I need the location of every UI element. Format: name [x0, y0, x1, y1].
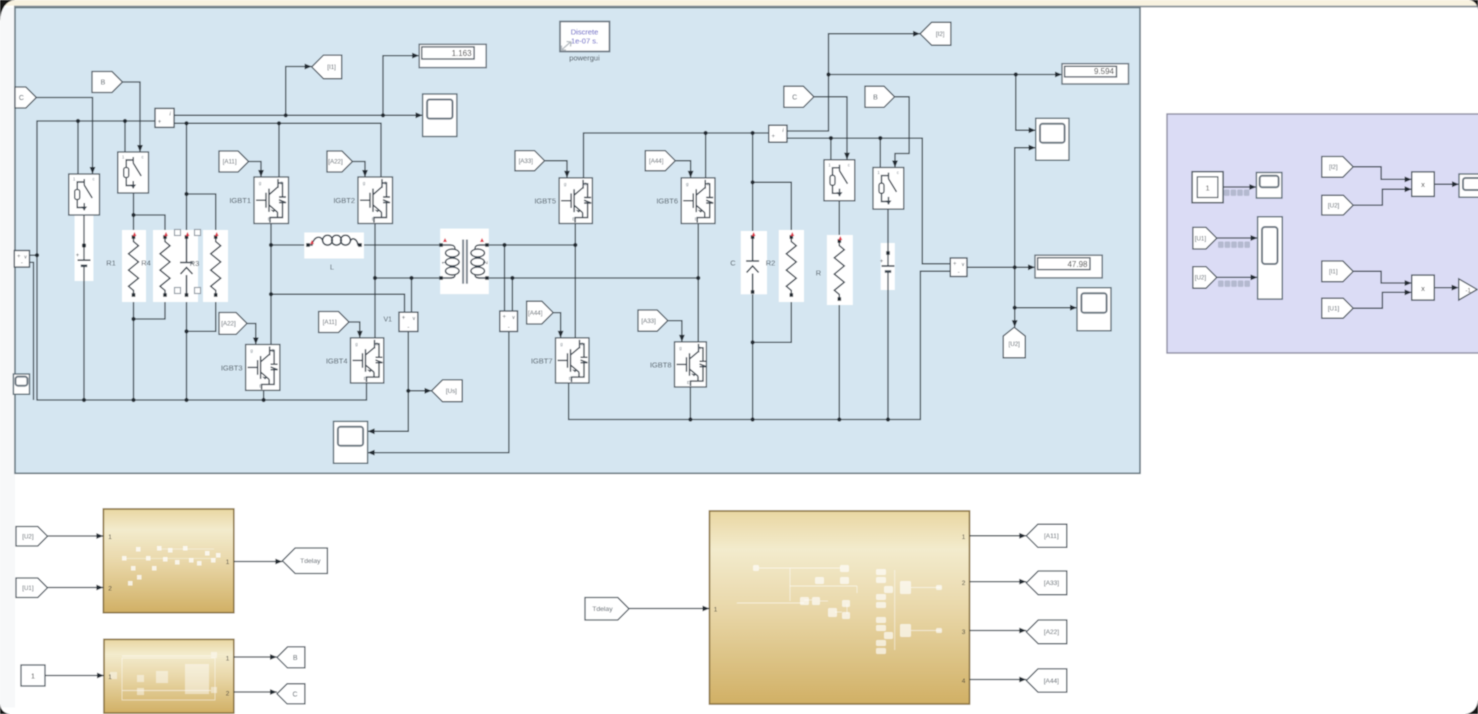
from tag A22 (IGBT2) [327, 151, 353, 172]
arrowhead into IGBT5 gate [564, 171, 570, 178]
svg-text:2: 2 [108, 586, 112, 593]
arrowhead into goto Us [425, 388, 432, 394]
svg-text:[U1]: [U1] [1328, 305, 1340, 312]
svg-text:[U2]: [U2] [1009, 341, 1021, 348]
svg-text:2: 2 [483, 260, 490, 264]
subsystem: delay calculation (top-left tan block) [103, 509, 233, 613]
wire: from A11 to IGBT1 gate [249, 162, 261, 178]
svg-text:C: C [292, 691, 297, 698]
svg-text:1: 1 [31, 672, 35, 681]
wire: from A33 to IGBT8 gate [668, 321, 682, 342]
svg-text:[A22]: [A22] [328, 159, 343, 166]
arrowhead into IGBT6 gate [688, 171, 694, 178]
wire: V2 output down to scope [368, 332, 509, 453]
goto tag B [277, 647, 305, 668]
from tag A33 (IGBT8) [638, 310, 668, 331]
from tag Tdelay (PWM input) [585, 598, 629, 621]
svg-text:c: c [897, 170, 899, 175]
arrowhead into IGBT3 gate [253, 338, 259, 345]
goto tag U2 (pointing up) [1003, 327, 1025, 358]
product block 2 [1412, 275, 1435, 300]
scope: leakage current [1256, 173, 1282, 199]
ideal switch S4 [873, 168, 904, 210]
junction node (133.5,400) [131, 398, 135, 402]
wire: from A44 to IGBT6 gate [675, 161, 690, 178]
scope: voltages (tall) [1258, 217, 1283, 299]
from tag U2 (panel) [1193, 267, 1217, 289]
junction node (690.4,419.5) [688, 417, 692, 421]
svg-text:E: E [372, 217, 375, 222]
wire: branch to display 1.163 [383, 56, 419, 116]
svg-text:1: 1 [108, 674, 112, 681]
from tag A44 (IGBT7) [527, 301, 554, 324]
rounded corner bottom-left [0, 704, 10, 714]
svg-text:E: E [695, 217, 698, 222]
svg-text:-: - [407, 325, 409, 331]
wire: R5 bottom jog [187, 295, 216, 331]
svg-text:[I2]: [I2] [936, 31, 945, 38]
wire: subsystem output to goto Tdelay [234, 561, 283, 563]
svg-text:1e-07 s.: 1e-07 s. [571, 37, 598, 46]
current measurement I2 [769, 125, 787, 142]
svg-text:2: 2 [962, 580, 966, 587]
wire: capacitor C branch line [752, 133, 754, 420]
wire: switch S1 to battery E1 to bus [83, 215, 85, 400]
wire: input voltmeter top port [30, 254, 38, 256]
arrowhead into goto U2 [1012, 320, 1018, 327]
junction node (271,294.2) [269, 292, 273, 296]
selection handles of R3 [175, 230, 181, 236]
constant 1 (leakage current sel) [1192, 172, 1223, 203]
wire: node A to V1 left port [271, 294, 405, 312]
svg-text:c: c [141, 155, 143, 160]
svg-text:+: + [158, 119, 162, 125]
arrowhead into scope4 in1 [1029, 127, 1036, 133]
arrowhead into goto A44 [1019, 677, 1026, 683]
svg-text:[A44]: [A44] [649, 158, 664, 165]
capacitor branch R3 (selected) [177, 230, 198, 302]
svg-text:+: + [17, 254, 21, 260]
rounded corner top-right [1469, 0, 1478, 10]
svg-text:B: B [873, 94, 878, 101]
svg-text:[A11]: [A11] [323, 319, 337, 326]
arrowhead into goto I2 [913, 31, 920, 37]
powergui block [560, 22, 610, 52]
display: 1.163 [419, 44, 486, 67]
wire: from B to switch S4 gate [895, 97, 910, 168]
svg-text:R3: R3 [190, 259, 200, 268]
top window strip [0, 0, 1478, 6]
resistor R1 [122, 230, 146, 302]
from tag A11 (IGBT1) [219, 151, 249, 172]
arrowhead into scope in [416, 112, 423, 118]
wire: from A22 to IGBT3 gate [247, 324, 256, 345]
wire: product 1 to power scope [1434, 183, 1459, 185]
arrowhead into product2 in1 [1405, 280, 1412, 286]
wire: current meas output rail to IGBT2 collector [174, 123, 381, 177]
junction node (839.3,419.5) [837, 417, 841, 421]
arrowhead into scope V2 in [368, 450, 375, 456]
wire: signal to display 9.594 [829, 74, 1063, 76]
svg-text:1: 1 [962, 534, 966, 541]
junction node (84,400) [82, 398, 86, 402]
svg-text:[A33]: [A33] [519, 158, 534, 165]
wire: bridge node C vertical (IGBT5-IGBT7) [574, 224, 576, 338]
wire: from U1 to voltage scope [1217, 237, 1258, 239]
svg-text:[Us]: [Us] [446, 388, 457, 395]
svg-text:[A11]: [A11] [223, 159, 237, 166]
subsystem internals (faint) [122, 658, 215, 700]
svg-text:R2: R2 [766, 259, 776, 268]
svg-text:V1: V1 [383, 317, 392, 324]
goto tag A11 (PWM out) [1026, 524, 1067, 547]
from tag I1 (panel) [1322, 261, 1353, 282]
arrowhead into subsystem in1 [96, 533, 103, 539]
svg-text:E: E [364, 376, 367, 381]
svg-text:[I2]: [I2] [1329, 164, 1338, 171]
wire: R4 bottom jog [134, 295, 166, 319]
svg-text:1: 1 [226, 656, 230, 663]
scope: input voltage (left edge) [13, 374, 29, 394]
svg-text:[A44]: [A44] [1044, 678, 1059, 685]
wire: bridge node B vertical (IGBT2-IGBT4) [374, 224, 376, 338]
arrowhead into product1 in1 [1405, 177, 1412, 183]
arrowhead into goto Tdelay [275, 559, 282, 565]
svg-text:1.163: 1.163 [452, 49, 473, 58]
junction node (752.6,342.4) [751, 340, 755, 344]
arrowhead into S4 gate [892, 161, 898, 168]
svg-text:R1: R1 [106, 259, 116, 268]
junction node (504.5,245) [502, 243, 506, 247]
from tag A33 (IGBT5) [515, 151, 545, 171]
wire: product 2 to gain -1 [1434, 287, 1456, 289]
arrowhead into volt scope in1 [1251, 235, 1258, 241]
wire: transformer secondary- to node D [488, 277, 698, 279]
from tag B (S4 gate) [865, 86, 895, 107]
arrowhead into product1 in2 [1405, 186, 1412, 192]
arrowhead into S3 gate [844, 153, 850, 160]
from tag C (S3 gate) [784, 86, 814, 107]
arrowhead into IGBT8 gate [679, 335, 685, 342]
ideal switch S3 [824, 160, 855, 201]
wire: from I1 to product 2 [1353, 271, 1412, 283]
product block 1 [1412, 172, 1435, 197]
DC source E2 [881, 243, 895, 290]
current measurement I1 [155, 108, 174, 127]
svg-text:IGBT3: IGBT3 [221, 364, 243, 373]
from tag C (gate) [15, 87, 36, 108]
voltage measurement V1 [399, 312, 418, 331]
wire: from A44 to IGBT7 gate [553, 313, 560, 338]
wire: bridge node A vertical (IGBT1-IGBT3) [270, 224, 272, 345]
arrowhead into subsystem B in [97, 673, 104, 679]
goto tag I2 [920, 22, 951, 45]
capacitor C [741, 231, 767, 294]
wire: PWM output 3 to goto A22 [970, 630, 1027, 632]
label: leakage current (CJK) [1224, 190, 1230, 196]
arrowhead into IGBT4 gate [357, 331, 363, 338]
arrowhead into goto I1 [305, 64, 312, 70]
resistor R4 [153, 230, 177, 302]
svg-text:IGBT2: IGBT2 [333, 196, 355, 205]
scope: output power (clipped) [1459, 174, 1478, 197]
label: HV side voltage (CJK) [1218, 281, 1224, 287]
arrowhead into scope5 in [1070, 305, 1077, 311]
svg-text:+: + [503, 315, 507, 321]
wire: from C to switch S3 gate [814, 97, 847, 160]
wire: from I2 to product 1 [1353, 167, 1412, 180]
svg-text:3: 3 [962, 629, 966, 636]
wire: inductor L to transformer primary+ [364, 244, 439, 246]
wire: from U1 to product 2 [1353, 292, 1412, 308]
wire: node B to transformer primary- [375, 277, 439, 279]
wire: from A22 to IGBT2 gate [353, 162, 366, 178]
arrowhead into PWM subsystem in [703, 606, 710, 612]
wire: V1 output down to scope [368, 332, 409, 432]
svg-text:Tdelay: Tdelay [300, 558, 321, 565]
junction node (830.9,138.1) [829, 136, 833, 140]
DC source E1 [75, 204, 94, 281]
wire: PWM output 2 to goto A33 [970, 581, 1027, 583]
voltage measurement (input) [14, 251, 29, 268]
wire: from U2 to subsystem input 1 [48, 535, 104, 537]
IGBT6 [681, 178, 715, 224]
svg-text:[U1]: [U1] [1195, 235, 1207, 242]
svg-text:[A22]: [A22] [1044, 629, 1059, 636]
linear transformer T1 [440, 229, 489, 295]
arrowhead into IGBT2 gate [362, 170, 368, 177]
wire: from U1 to subsystem input 2 [48, 587, 104, 589]
junction node (888,419.5) [886, 417, 890, 421]
goto tag I1 [312, 55, 342, 79]
wire: current meas 2 signal out [787, 75, 829, 132]
wire: switch S3 to R load to bus [838, 200, 840, 419]
svg-text:E: E [572, 217, 575, 222]
goto tag A33 (PWM out) [1026, 571, 1067, 595]
junction node (705.6,133) [704, 131, 708, 135]
arrowhead into display 47.98 [1028, 264, 1035, 270]
junction node (1015.8,74.5) [1014, 72, 1018, 76]
svg-text:+: + [953, 262, 957, 268]
junction node (125,121) [123, 119, 127, 123]
svg-text:R4: R4 [141, 259, 151, 268]
junction node (1014.7,267.3) [1013, 265, 1017, 269]
svg-text:IGBT6: IGBT6 [656, 197, 678, 206]
wire: IGBT8 emitter to bus [689, 387, 691, 420]
wire: from U2 to voltage scope [1217, 276, 1258, 278]
from tag B (gate) [92, 72, 123, 93]
arrowhead into goto A11 [1019, 533, 1026, 539]
wire: current signal I1 to scope [174, 114, 423, 116]
scope: primary voltages (mirrored) [334, 421, 368, 463]
top divider line [14, 6, 1478, 8]
svg-text:[U2]: [U2] [1328, 202, 1340, 209]
wire: from Tdelay to PWM subsystem [629, 608, 710, 610]
junction node (383,115.3) [381, 113, 385, 117]
wire: branch to scope input 1 [1016, 75, 1036, 131]
voltage measurement V2 [500, 311, 518, 332]
svg-text:IGBT1: IGBT1 [229, 196, 251, 205]
svg-text:[U1]: [U1] [22, 585, 34, 592]
arrowhead into goto B [270, 654, 277, 660]
wire: secondary bottom bus to V3 bottom port [569, 271, 951, 419]
svg-text:Discrete: Discrete [571, 28, 599, 37]
ideal switch S1 [69, 174, 100, 215]
svg-text:[U2]: [U2] [22, 534, 34, 541]
wire: V2 right port to secondary bottom [511, 278, 513, 311]
arrowhead into IGBT7 gate [558, 331, 564, 338]
svg-text:[A33]: [A33] [641, 318, 656, 325]
junction node (84,245.5) [82, 243, 86, 247]
svg-text:IGBT7: IGBT7 [531, 357, 553, 366]
wire: IGBT6 collector to rail [705, 133, 707, 178]
wire: PWM output 4 to goto A44 [970, 679, 1027, 681]
svg-text:E: E [687, 380, 690, 385]
svg-text:[A22]: [A22] [221, 321, 236, 328]
label: LV side voltage (CJK) [1218, 242, 1224, 248]
wire: bridge node D vertical (IGBT6-IGBT8) [697, 224, 699, 342]
wire: subsystem output 1 to goto B [234, 656, 277, 658]
goto tag C [277, 684, 305, 704]
svg-text:x: x [1421, 180, 1425, 189]
scope: input current [423, 94, 457, 137]
IGBT7 [556, 338, 590, 383]
wire: PWM output 1 to goto A11 [970, 535, 1027, 537]
goto tag A22 (PWM out) [1026, 620, 1067, 644]
arrowhead into S2 gate [137, 145, 143, 152]
gain -1 block [1459, 279, 1477, 300]
wire: branch to scope 5 [1015, 267, 1077, 307]
arrowhead into display 1.163 [412, 53, 419, 59]
svg-text:+: + [880, 259, 884, 265]
wire: node A to inductor L [271, 244, 304, 246]
svg-text:1: 1 [714, 607, 718, 614]
ideal switch S2 [118, 152, 149, 193]
rounded corner bottom-right [1465, 700, 1478, 714]
subsystem internals (faint) [753, 565, 759, 571]
arrowhead into scope V1 in [368, 428, 375, 434]
goto tag Tdelay [282, 548, 327, 574]
rounded corner top-left [0, 0, 15, 21]
svg-text:[I1]: [I1] [1329, 269, 1338, 276]
from tag I2 (panel) [1322, 157, 1353, 178]
from tag U2 (subsystem input) [16, 527, 48, 547]
junction node (1014.7,307.7) [1013, 306, 1017, 310]
svg-text:[I1]: [I1] [327, 64, 336, 71]
junction node (512.4,278) [510, 276, 514, 280]
arrowhead into goto C [270, 689, 277, 695]
arrowhead into display 9.594 [1055, 72, 1062, 78]
junction node (279,123.3) [277, 121, 281, 125]
subsystem internals (faint) [122, 556, 127, 561]
subsystem: B C generator (bottom-left tan block) [104, 639, 234, 713]
wire: constant to leakage-current scope [1223, 186, 1256, 188]
scope: output voltage [1077, 288, 1111, 331]
svg-text:R: R [816, 269, 822, 278]
wire: rail to switch S4 [879, 138, 881, 167]
display: 47.98 [1035, 255, 1102, 278]
IGBT2 [358, 177, 393, 224]
wire: rail to IGBT1 collector [278, 123, 280, 177]
wire: transformer secondary+ to node C [488, 244, 575, 246]
svg-text:[A11]: [A11] [1044, 533, 1059, 540]
junction node (408.3,390.8) [406, 389, 410, 393]
junction node (375,278) [373, 276, 377, 280]
from tag U1 (subsystem input) [16, 578, 48, 598]
wire: from A33 to IGBT5 gate [545, 161, 567, 178]
IGBT5 [559, 178, 592, 224]
junction node (285.7,115.3) [284, 113, 288, 117]
voltage measurement V3 (output) [950, 258, 967, 277]
svg-text:B: B [101, 80, 106, 87]
wire: rail to switch S1 [77, 121, 79, 174]
resistor R2 [779, 230, 804, 302]
wire: branch to goto I2 [829, 34, 921, 75]
wire: V2 left port to secondary top [504, 245, 506, 311]
junction node (271,245) [269, 243, 273, 247]
svg-text:+: + [76, 253, 80, 259]
svg-text:powergui: powergui [569, 54, 600, 63]
arrowhead into IGBT1 gate [258, 170, 264, 177]
display: 9.594 [1062, 64, 1129, 84]
wire: secondary top rail to current meas 2 [584, 133, 769, 178]
junction node (133.5,215) [131, 213, 135, 217]
resistor R5 [203, 230, 228, 302]
arrowhead into subsystem in2 [96, 585, 103, 591]
junction node (752.6,133) [751, 131, 755, 135]
svg-text:E: E [569, 376, 572, 381]
inductor L [304, 233, 364, 259]
svg-text:C: C [792, 94, 797, 101]
svg-text:-1: -1 [1466, 288, 1472, 294]
svg-text:L: L [330, 263, 334, 272]
junction node (828.5,74.5) [826, 72, 830, 76]
junction node (411.5,278) [409, 276, 413, 280]
wire: branch to goto I1 [286, 67, 312, 116]
wire: to V1 right port [411, 278, 413, 312]
wire: rail to switch S3 [830, 138, 832, 160]
goto tag A44 (PWM out) [1026, 669, 1067, 692]
IGBT4 [351, 338, 384, 383]
wire: switch S2 to R1 to bus [133, 193, 135, 400]
arrowhead into goto A33 [1019, 579, 1026, 585]
svg-text:IGBT8: IGBT8 [650, 361, 672, 370]
svg-text:+: + [771, 134, 775, 140]
svg-text:E: E [259, 383, 262, 388]
wire: branch down to goto U2 [1014, 308, 1016, 328]
wire: IGBT3 emitter to bus [263, 390, 265, 400]
measurement subsystem panel (lavender) [1167, 114, 1478, 353]
svg-text:4: 4 [962, 678, 966, 685]
wire: C gate tag to switch S1 gate [36, 98, 92, 175]
svg-text:+: + [402, 316, 406, 322]
arrowhead into volt scope in2 [1251, 275, 1258, 281]
main model canvas (blue panel) [15, 8, 1140, 474]
junction node (575.3,245) [573, 243, 577, 247]
wire: jog to R5 top [187, 194, 216, 237]
svg-text:Tdelay: Tdelay [592, 606, 613, 613]
svg-text:[U2]: [U2] [1195, 275, 1207, 282]
svg-text:9.594: 9.594 [1094, 67, 1115, 76]
IGBT3 [246, 345, 280, 391]
junction node (133.5,319) [131, 317, 135, 321]
wire: branch to goto Us [408, 390, 431, 392]
from tag A11 (IGBT4) [319, 312, 349, 333]
svg-text:x: x [1421, 284, 1425, 293]
wire: R3 branch line [186, 123, 188, 400]
wire: jog to R4 top [134, 215, 166, 237]
svg-text:-: - [21, 261, 23, 267]
